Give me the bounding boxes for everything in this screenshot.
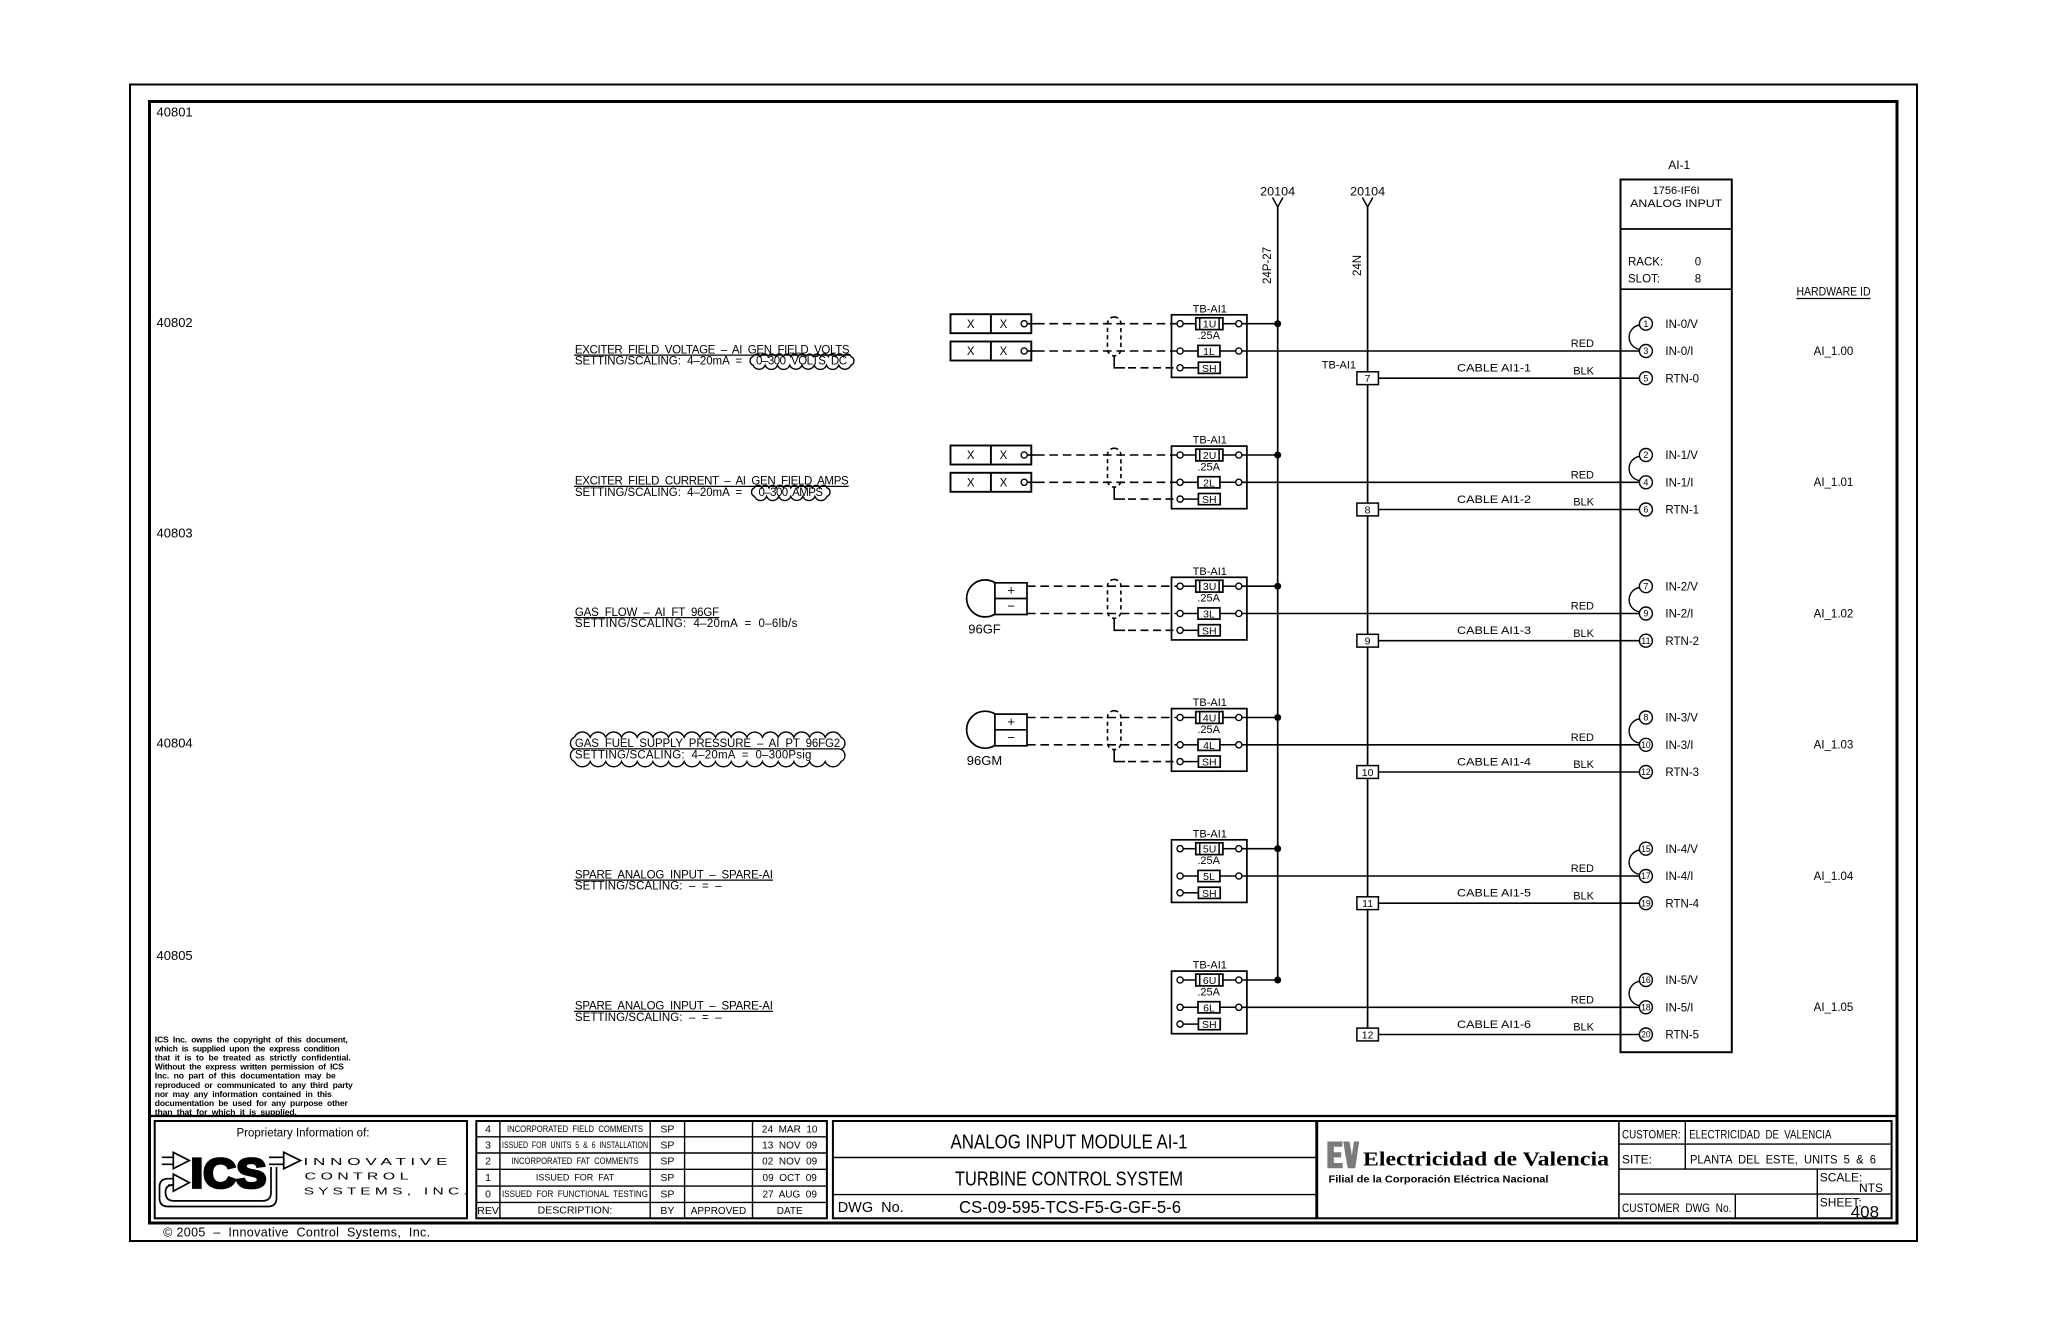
svg-text:SITE:: SITE: — [1622, 1153, 1652, 1167]
terminal SH shield (channel 4) — [1177, 890, 1183, 896]
wire field cable - (dashed, channel 3) — [1027, 744, 1177, 746]
terminal block TB-AI1 (channel 0) — [1172, 315, 1247, 378]
svg-text:11: 11 — [1362, 898, 1373, 910]
node module pin 6 RTN-1 — [1639, 503, 1652, 516]
svg-text:40802: 40802 — [157, 315, 193, 330]
node module pin 18 IN-5/I — [1639, 1001, 1652, 1014]
wire BLK terminal 8 to pin 6 — [1378, 509, 1639, 511]
shield symbol (channel 1) — [1108, 448, 1121, 487]
transmitter 96GM (channel 3) — [967, 711, 1004, 748]
svg-text:ISSUED FOR FUNCTIONAL TESTI: ISSUED FOR FUNCTIONAL TESTING — [502, 1189, 648, 1199]
wire BLK terminal 7 to pin 5 — [1378, 377, 1639, 379]
terminal SH shield (channel 2) — [1177, 627, 1183, 633]
wire RED 5L to pin 17 — [1242, 875, 1640, 877]
svg-text:INCORPORATED FAT COMMENTS: INCORPORATED FAT COMMENTS — [511, 1156, 638, 1166]
svg-text:BY: BY — [660, 1205, 674, 1217]
node junction on 24P-27 (channel 5) — [1274, 977, 1281, 984]
svg-text:0: 0 — [1695, 257, 1701, 269]
wire field cable - (dashed, channel 1) — [1036, 481, 1177, 483]
fuse 5U .25A (channel 4) — [1177, 846, 1183, 852]
terminal 11 TB-AI1 on 24N bus — [1357, 897, 1379, 910]
svg-text:SH: SH — [1202, 757, 1217, 769]
svg-text:CUSTOMER:: CUSTOMER: — [1622, 1128, 1681, 1142]
svg-text:1U: 1U — [1203, 319, 1216, 331]
wire RED 4L to pin 10 — [1242, 744, 1640, 746]
svg-text:X: X — [967, 478, 975, 490]
svg-text:BLK: BLK — [1573, 365, 1594, 377]
svg-text:SP: SP — [660, 1172, 674, 1184]
svg-text:SPARE ANALOG INPUT – SPARE: SPARE ANALOG INPUT – SPARE-AI — [575, 1001, 773, 1013]
svg-text:AI-1: AI-1 — [1668, 158, 1690, 172]
wire field cable + (dashed, channel 1) — [1036, 454, 1177, 456]
svg-text:20: 20 — [1641, 1030, 1651, 1040]
node module pin 7 IN-2/V — [1639, 580, 1652, 593]
svg-text:7: 7 — [1365, 373, 1371, 385]
svg-text:SH: SH — [1202, 888, 1217, 900]
svg-text:8: 8 — [1365, 504, 1371, 516]
node channel 0 revision cloud — [750, 354, 854, 369]
wire BLK terminal 9 to pin 11 — [1378, 640, 1639, 642]
node junction on 24P-27 (channel 0) — [1274, 320, 1281, 327]
wire BLK terminal 10 to pin 12 — [1378, 771, 1639, 773]
node module pin 3 IN-0/I — [1639, 345, 1652, 358]
svg-text:IN-5/V: IN-5/V — [1665, 975, 1698, 987]
svg-text:IN-4/V: IN-4/V — [1665, 844, 1698, 856]
svg-text:1: 1 — [1643, 319, 1648, 329]
svg-text:TB-AI1: TB-AI1 — [1193, 566, 1227, 578]
node junction on 24P-27 (channel 2) — [1274, 583, 1281, 590]
wire RED 1L to pin 3 — [1242, 350, 1640, 352]
wire field cable + (dashed, channel 3) — [1027, 717, 1177, 719]
svg-text:SETTING/SCALING: 4–20mA =: SETTING/SCALING: 4–20mA = — [575, 487, 742, 499]
svg-text:IN-1/V: IN-1/V — [1665, 450, 1698, 462]
svg-text:15: 15 — [1641, 844, 1651, 854]
terminal strip X-X (channel 0 U) — [951, 314, 1032, 333]
svg-text:.25A: .25A — [1197, 724, 1220, 736]
wire jumper pin 2 to pin 4 — [1629, 456, 1640, 480]
terminal 10 TB-AI1 on 24N bus — [1357, 766, 1379, 779]
wire jumper pin 1 to pin 3 — [1629, 325, 1640, 349]
node module pin 12 RTN-3 — [1639, 766, 1652, 779]
svg-text:24P-27: 24P-27 — [1262, 247, 1274, 284]
svg-text:SP: SP — [660, 1156, 674, 1168]
wire BLK terminal 12 to pin 20 — [1378, 1034, 1639, 1036]
svg-text:X: X — [1000, 346, 1008, 358]
svg-text:IN-5/I: IN-5/I — [1665, 1002, 1693, 1014]
svg-text:2U: 2U — [1203, 450, 1216, 462]
svg-text:© 2005 – Innovative Control: © 2005 – Innovative Control Systems, Inc… — [163, 1226, 430, 1240]
customer info grid — [1619, 1143, 1892, 1145]
svg-text:BLK: BLK — [1573, 890, 1594, 902]
svg-text:24N: 24N — [1352, 255, 1364, 276]
svg-text:SETTING/SCALING: – = –: SETTING/SCALING: – = – — [575, 1012, 722, 1024]
svg-text:than that for which it is: than that for which it is supplied. — [155, 1107, 297, 1117]
terminal 3L (channel 2) — [1177, 610, 1183, 616]
svg-text:3: 3 — [485, 1139, 491, 1151]
terminal strip X-X (channel 0 L) — [951, 342, 1032, 361]
svg-text:REV: REV — [477, 1205, 499, 1217]
svg-text:SP: SP — [660, 1189, 674, 1201]
svg-text:RED: RED — [1571, 732, 1594, 744]
svg-text:CABLE AI1-6: CABLE AI1-6 — [1457, 1019, 1531, 1031]
svg-text:RED: RED — [1571, 863, 1594, 875]
terminal 8 TB-AI1 on 24N bus — [1357, 503, 1379, 516]
svg-text:TB-AI1: TB-AI1 — [1193, 960, 1227, 972]
svg-text:BLK: BLK — [1573, 1022, 1594, 1034]
terminal block TB-AI1 (channel 3) — [1172, 709, 1247, 772]
svg-text:SP: SP — [660, 1123, 674, 1135]
svg-text:7: 7 — [1643, 581, 1648, 591]
terminal block TB-AI1 (channel 4) — [1172, 840, 1247, 903]
svg-text:RTN-3: RTN-3 — [1665, 767, 1699, 779]
svg-text:IN-2/I: IN-2/I — [1665, 609, 1693, 621]
svg-text:.25A: .25A — [1197, 330, 1220, 342]
terminal 12 TB-AI1 on 24N bus — [1357, 1028, 1379, 1041]
svg-text:Proprietary Information of:: Proprietary Information of: — [237, 1127, 370, 1139]
svg-text:CABLE AI1-4: CABLE AI1-4 — [1457, 756, 1531, 768]
customer block box — [1317, 1121, 1891, 1218]
node channel 1 revision cloud — [752, 485, 830, 500]
svg-text:02 NOV 09: 02 NOV 09 — [762, 1157, 817, 1168]
terminal SH shield (channel 1) — [1177, 496, 1183, 502]
node module pin 2 IN-1/V — [1639, 449, 1652, 462]
svg-text:3L: 3L — [1203, 609, 1215, 621]
node module pin 8 IN-3/V — [1639, 711, 1652, 724]
svg-text:HARDWARE ID: HARDWARE ID — [1797, 287, 1871, 299]
svg-text:DATE: DATE — [777, 1206, 803, 1217]
svg-text:TB-AI1: TB-AI1 — [1193, 697, 1227, 709]
svg-text:IN-1/I: IN-1/I — [1665, 477, 1693, 489]
svg-text:IN-4/I: IN-4/I — [1665, 871, 1693, 883]
svg-text:X: X — [1000, 478, 1008, 490]
svg-text:4U: 4U — [1203, 712, 1216, 724]
terminal SH shield (channel 0) — [1177, 365, 1183, 371]
svg-text:SETTING/SCALING: 4–20mA =: SETTING/SCALING: 4–20mA = — [575, 356, 742, 368]
svg-text:13 NOV 09: 13 NOV 09 — [762, 1140, 817, 1151]
svg-text:ISSUED FOR UNITS 5 & 6 I: ISSUED FOR UNITS 5 & 6 INSTALLATION — [502, 1140, 648, 1150]
node module pin 1 IN-0/V — [1639, 317, 1652, 330]
wire 2U to 24P-27 bus — [1242, 454, 1278, 456]
svg-text:TB-AI1: TB-AI1 — [1322, 360, 1356, 372]
node module pin 17 IN-4/I — [1639, 870, 1652, 883]
fuse 6U .25A (channel 5) — [1177, 977, 1183, 983]
svg-text:I N N O V A T I V E: I N N O V A T I V E — [304, 1156, 448, 1168]
svg-text:TB-AI1: TB-AI1 — [1193, 303, 1227, 315]
svg-text:0–300 VOLTS DC: 0–300 VOLTS DC — [756, 356, 847, 368]
svg-text:6: 6 — [1643, 505, 1648, 515]
svg-text:RTN-0: RTN-0 — [1665, 373, 1699, 385]
svg-text:−: − — [1007, 599, 1015, 614]
svg-text:2: 2 — [485, 1156, 491, 1168]
node module pin 16 IN-5/V — [1639, 974, 1652, 987]
node module pin 11 RTN-2 — [1639, 634, 1652, 647]
svg-text:4L: 4L — [1203, 740, 1215, 752]
shield symbol (channel 3) — [1108, 711, 1121, 750]
svg-text:AI_1.02: AI_1.02 — [1814, 608, 1854, 620]
svg-text:CABLE AI1-1: CABLE AI1-1 — [1457, 363, 1531, 375]
svg-text:DWG No.: DWG No. — [838, 1200, 904, 1216]
svg-text:RED: RED — [1571, 601, 1594, 613]
svg-text:40805: 40805 — [157, 948, 193, 963]
outer border — [130, 85, 1917, 1242]
terminal strip X-X (channel 1 U) — [951, 446, 1032, 465]
svg-text:−: − — [1007, 730, 1015, 745]
svg-text:BLK: BLK — [1573, 759, 1594, 771]
terminal 5L (channel 4) — [1177, 873, 1183, 879]
svg-text:RED: RED — [1571, 338, 1594, 350]
svg-text:16: 16 — [1641, 975, 1651, 985]
wire 24P-27 arrow — [1273, 198, 1283, 208]
svg-text:TURBINE CONTROL SYSTEM: TURBINE CONTROL SYSTEM — [955, 1169, 1183, 1191]
svg-text:6L: 6L — [1203, 1002, 1215, 1014]
drawing title box — [833, 1121, 1316, 1218]
wire 24N vertical bus — [1367, 207, 1369, 1041]
svg-text:1L: 1L — [1203, 346, 1215, 358]
terminal 7 TB-AI1 on 24N bus — [1357, 372, 1379, 385]
svg-text:SH: SH — [1202, 1019, 1217, 1031]
svg-text:SH: SH — [1202, 494, 1217, 506]
svg-text:RED: RED — [1571, 470, 1594, 482]
node junction on 24P-27 (channel 1) — [1274, 452, 1281, 459]
svg-text:NTS: NTS — [1859, 1181, 1883, 1195]
svg-text:RTN-5: RTN-5 — [1665, 1030, 1699, 1042]
svg-text:8: 8 — [1695, 274, 1701, 286]
svg-text:2L: 2L — [1203, 477, 1215, 489]
svg-text:ISSUED FOR FAT: ISSUED FOR FAT — [536, 1173, 614, 1183]
svg-text:10: 10 — [1362, 767, 1374, 779]
revision table — [476, 1121, 827, 1218]
svg-text:AI_1.04: AI_1.04 — [1814, 871, 1854, 883]
wire RED 3L to pin 9 — [1242, 613, 1640, 615]
svg-text:24 MAR 10: 24 MAR 10 — [762, 1124, 818, 1135]
svg-text:1756-IF6I: 1756-IF6I — [1653, 185, 1700, 197]
wire field cable - (dashed, channel 0) — [1036, 350, 1177, 352]
title block top line — [150, 1115, 1898, 1117]
svg-text:.25A: .25A — [1197, 855, 1220, 867]
node module pin 15 IN-4/V — [1639, 842, 1652, 855]
wire 3U to 24P-27 bus — [1242, 585, 1278, 587]
terminal strip X-X (channel 1 L) — [951, 473, 1032, 492]
terminal 6L (channel 5) — [1177, 1004, 1183, 1010]
svg-text:4: 4 — [485, 1123, 491, 1135]
shield symbol (channel 0) — [1108, 317, 1121, 356]
svg-text:96GM: 96GM — [967, 753, 1002, 768]
wire 24P-27 vertical bus — [1277, 207, 1279, 980]
svg-text:DESCRIPTION:: DESCRIPTION: — [538, 1204, 613, 1216]
svg-text:IN-3/I: IN-3/I — [1665, 740, 1693, 752]
wire 4U to 24P-27 bus — [1242, 717, 1278, 719]
svg-text:C O N T R O L: C O N T R O L — [305, 1170, 409, 1182]
svg-text:RTN-4: RTN-4 — [1665, 898, 1699, 910]
svg-text:5U: 5U — [1203, 844, 1216, 856]
module U1 1756-IF6I ANALOG INPUT box — [1621, 180, 1732, 1053]
wire jumper pin 16 to pin 18 — [1629, 981, 1640, 1005]
svg-text:+: + — [1007, 583, 1015, 598]
ICS logo — [160, 1152, 301, 1206]
node module pin 19 RTN-4 — [1639, 897, 1652, 910]
svg-text:96GF: 96GF — [968, 622, 1001, 637]
svg-text:IN-0/I: IN-0/I — [1665, 346, 1693, 358]
svg-text:X: X — [967, 450, 975, 462]
terminal block TB-AI1 (channel 1) — [1172, 446, 1247, 509]
svg-text:12: 12 — [1362, 1029, 1374, 1041]
wire field cable + (dashed, channel 2) — [1027, 585, 1177, 587]
transmitter 96GF (channel 2) — [967, 580, 1004, 617]
node module pin 9 IN-2/I — [1639, 607, 1652, 620]
wire jumper pin 15 to pin 17 — [1629, 850, 1640, 874]
svg-text:.25A: .25A — [1197, 986, 1220, 998]
svg-text:ELECTRICIDAD DE VALENCIA: ELECTRICIDAD DE VALENCIA — [1689, 1128, 1831, 1142]
terminal 1L (channel 0) — [1177, 348, 1183, 354]
svg-text:.25A: .25A — [1197, 593, 1220, 605]
fuse 3U .25A (channel 2) — [1177, 583, 1183, 589]
svg-text:.25A: .25A — [1197, 461, 1220, 473]
svg-text:CABLE AI1-3: CABLE AI1-3 — [1457, 625, 1531, 637]
terminal 2L (channel 1) — [1177, 479, 1183, 485]
svg-text:Filial de la Corporación Eléct: Filial de la Corporación Eléctrica Nacio… — [1329, 1173, 1549, 1185]
svg-text:TB-AI1: TB-AI1 — [1193, 435, 1227, 447]
node junction on 24P-27 (channel 4) — [1274, 845, 1281, 852]
svg-text:INCORPORATED FIELD COMMENTS: INCORPORATED FIELD COMMENTS — [507, 1124, 643, 1134]
svg-text:AI_1.05: AI_1.05 — [1814, 1002, 1854, 1014]
svg-text:0–300 AMPS: 0–300 AMPS — [759, 487, 824, 499]
svg-text:IN-3/V: IN-3/V — [1665, 713, 1698, 725]
svg-text:SETTING/SCALING: 4–20mA = 0: SETTING/SCALING: 4–20mA = 0–300Psig — [575, 750, 812, 762]
svg-text:SH: SH — [1202, 363, 1217, 375]
svg-text:X: X — [967, 319, 975, 331]
svg-text:SP: SP — [660, 1139, 674, 1151]
node module pin 5 RTN-0 — [1639, 372, 1652, 385]
svg-text:408: 408 — [1851, 1202, 1879, 1221]
inner frame — [150, 102, 1898, 1224]
svg-text:11: 11 — [1641, 636, 1651, 646]
svg-text:CUSTOMER DWG No.: CUSTOMER DWG No. — [1622, 1201, 1731, 1215]
svg-text:20104: 20104 — [1260, 187, 1296, 199]
fuse 2U .25A (channel 1) — [1177, 452, 1183, 458]
svg-text:8: 8 — [1643, 713, 1648, 723]
svg-text:AI_1.00: AI_1.00 — [1814, 346, 1854, 358]
node channel 3 revision cloud — [570, 732, 845, 767]
svg-text:09 OCT 09: 09 OCT 09 — [763, 1173, 818, 1184]
node junction on 24P-27 (channel 3) — [1274, 714, 1281, 721]
svg-text:ANALOG INPUT MODULE AI-1: ANALOG INPUT MODULE AI-1 — [951, 1131, 1188, 1153]
terminal SH shield (channel 3) — [1177, 759, 1183, 765]
wire jumper pin 8 to pin 10 — [1629, 719, 1640, 743]
svg-text:SLOT:: SLOT: — [1628, 274, 1660, 286]
svg-text:SETTING/SCALING: 4–20mA = 0: SETTING/SCALING: 4–20mA = 0–6lb/s — [575, 618, 798, 630]
svg-text:SH: SH — [1202, 625, 1217, 637]
shield symbol (channel 2) — [1108, 579, 1121, 618]
svg-text:IN-0/V: IN-0/V — [1665, 319, 1698, 331]
terminal block TB-AI1 (channel 5) — [1172, 971, 1247, 1034]
svg-text:27 AUG 09: 27 AUG 09 — [762, 1190, 817, 1201]
wire BLK terminal 11 to pin 19 — [1378, 902, 1639, 904]
svg-text:X: X — [1000, 319, 1008, 331]
svg-text:IN-2/V: IN-2/V — [1665, 581, 1698, 593]
terminal 4L (channel 3) — [1177, 742, 1183, 748]
terminal 9 TB-AI1 on 24N bus — [1357, 634, 1379, 647]
wire RED 2L to pin 4 — [1242, 481, 1640, 483]
svg-text:AI_1.01: AI_1.01 — [1814, 477, 1854, 489]
svg-text:RED: RED — [1571, 995, 1594, 1007]
svg-text:40803: 40803 — [157, 526, 193, 541]
svg-text:18: 18 — [1641, 1003, 1651, 1013]
svg-text:TB-AI1: TB-AI1 — [1193, 828, 1227, 840]
svg-text:10: 10 — [1641, 740, 1651, 750]
svg-text:20104: 20104 — [1350, 187, 1386, 199]
svg-text:GAS FUEL SUPPLY PRESSURE –: GAS FUEL SUPPLY PRESSURE – AI PT 96FG2 — [575, 738, 840, 750]
svg-text:CABLE AI1-5: CABLE AI1-5 — [1457, 888, 1531, 900]
wire jumper pin 7 to pin 9 — [1629, 588, 1640, 612]
wire 1U to 24P-27 bus — [1242, 323, 1278, 325]
svg-text:3: 3 — [1643, 346, 1648, 356]
svg-text:RTN-1: RTN-1 — [1665, 505, 1699, 517]
svg-text:9: 9 — [1643, 609, 1648, 619]
wire RED 6L to pin 18 — [1242, 1006, 1640, 1008]
svg-text:S Y S T E M S , I N C .: S Y S T E M S , I N C . — [304, 1185, 468, 1197]
svg-text:5: 5 — [1643, 373, 1648, 383]
terminal block TB-AI1 (channel 2) — [1172, 577, 1247, 640]
svg-text:1: 1 — [485, 1172, 491, 1184]
svg-text:4: 4 — [1643, 478, 1648, 488]
logo Electricidad de Valencia — [1327, 1142, 1359, 1169]
svg-text:17: 17 — [1641, 871, 1651, 881]
wire 5U to 24P-27 bus — [1242, 848, 1278, 850]
svg-text:2: 2 — [1643, 450, 1648, 460]
svg-text:19: 19 — [1641, 898, 1651, 908]
svg-text:6U: 6U — [1203, 975, 1216, 987]
svg-text:+: + — [1007, 714, 1015, 729]
svg-text:12: 12 — [1641, 767, 1651, 777]
svg-text:BLK: BLK — [1573, 497, 1594, 509]
fuse 1U .25A (channel 0) — [1177, 321, 1183, 327]
svg-text:40801: 40801 — [157, 105, 193, 120]
wire field cable + (dashed, channel 0) — [1036, 323, 1177, 325]
wire 6U to 24P-27 bus — [1242, 979, 1278, 981]
ICS logo box — [155, 1121, 467, 1218]
svg-text:9: 9 — [1365, 636, 1371, 648]
svg-text:SCALE:: SCALE: — [1820, 1170, 1863, 1184]
svg-text:PLANTA DEL ESTE, UNITS 5: PLANTA DEL ESTE, UNITS 5 & 6 — [1690, 1153, 1876, 1167]
wire 24N arrow — [1362, 198, 1372, 208]
svg-text:CS-09-595-TCS-F5-G-GF-5-6: CS-09-595-TCS-F5-G-GF-5-6 — [959, 1197, 1181, 1217]
svg-text:AI_1.03: AI_1.03 — [1814, 740, 1854, 752]
node module pin 20 RTN-5 — [1639, 1028, 1652, 1041]
svg-text:X: X — [967, 346, 975, 358]
svg-text:RTN-2: RTN-2 — [1665, 636, 1699, 648]
svg-text:RACK:: RACK: — [1628, 257, 1663, 269]
svg-text:ICS: ICS — [191, 1150, 267, 1197]
node module pin 10 IN-3/I — [1639, 738, 1652, 751]
fuse 4U .25A (channel 3) — [1177, 714, 1183, 720]
svg-text:X: X — [1000, 450, 1008, 462]
svg-text:40804: 40804 — [157, 735, 193, 750]
svg-text:BLK: BLK — [1573, 628, 1594, 640]
svg-text:SETTING/SCALING: – = –: SETTING/SCALING: – = – — [575, 881, 722, 893]
wire field cable - (dashed, channel 2) — [1027, 613, 1177, 615]
svg-text:3U: 3U — [1203, 581, 1216, 593]
svg-text:ANALOG INPUT: ANALOG INPUT — [1630, 198, 1722, 210]
node module pin 4 IN-1/I — [1639, 476, 1652, 489]
svg-text:0: 0 — [485, 1189, 491, 1201]
svg-text:APPROVED: APPROVED — [691, 1206, 747, 1217]
terminal SH shield (channel 5) — [1177, 1021, 1183, 1027]
svg-text:Electricidad de Valencia: Electricidad de Valencia — [1363, 1149, 1609, 1171]
svg-text:CABLE AI1-2: CABLE AI1-2 — [1457, 494, 1531, 506]
svg-text:5L: 5L — [1203, 871, 1215, 883]
